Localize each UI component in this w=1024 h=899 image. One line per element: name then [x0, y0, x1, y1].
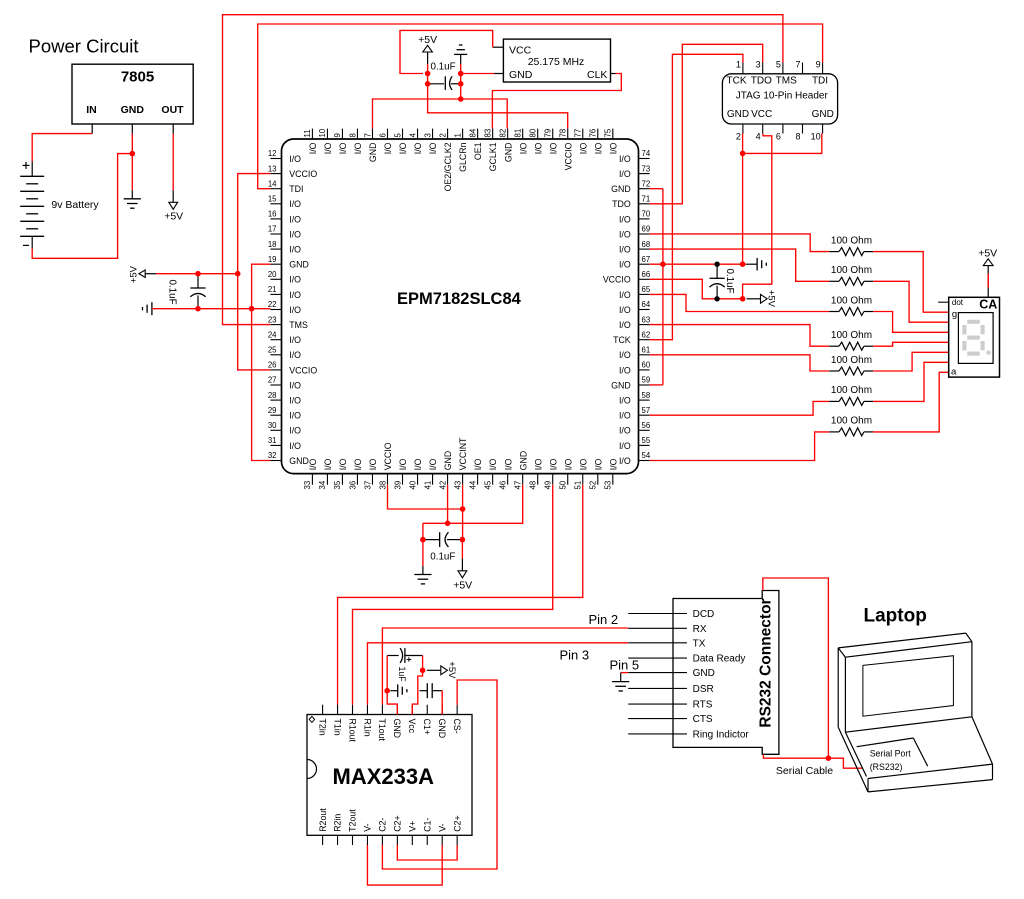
svg-text:41: 41 — [423, 481, 432, 490]
+5V symbol above display — [978, 247, 997, 297]
svg-text:I/O: I/O — [619, 214, 631, 224]
svg-text:CA: CA — [979, 298, 997, 312]
svg-text:I/O: I/O — [289, 396, 301, 406]
svg-text:I/O: I/O — [619, 411, 631, 421]
svg-text:I/O: I/O — [323, 458, 333, 470]
U2 top pin names — [308, 142, 618, 191]
resistor R5 100 Ohm — [829, 355, 873, 375]
svg-text:TCK: TCK — [613, 335, 631, 345]
svg-text:53: 53 — [604, 481, 613, 490]
svg-text:V+: V+ — [408, 821, 418, 832]
+5V symbol — [427, 661, 457, 679]
svg-text:TDO: TDO — [751, 75, 772, 86]
svg-text:3: 3 — [756, 60, 761, 70]
svg-text:4: 4 — [408, 133, 417, 138]
wire display anode +5V (red overlay) — [987, 274, 989, 288]
wire C7 to U4 GND pin — [441, 691, 443, 715]
RS232 connector J2 body — [628, 591, 779, 755]
svg-text:I/O: I/O — [488, 458, 498, 470]
svg-text:25.175 MHz: 25.175 MHz — [528, 56, 585, 68]
svg-text:C2+: C2+ — [452, 815, 462, 831]
svg-text:I/O: I/O — [338, 458, 348, 470]
U2 left pin numbers — [268, 149, 277, 460]
wire 7805 IN to battery + — [32, 134, 92, 162]
wire pin67 GND rail — [650, 263, 747, 265]
svg-text:77: 77 — [574, 129, 583, 138]
svg-text:1uF: 1uF — [397, 667, 407, 683]
svg-text:21: 21 — [268, 285, 277, 294]
wire JTAG TDI to U2 pin 14 — [258, 24, 823, 189]
svg-text:58: 58 — [642, 391, 651, 400]
svg-text:I/O: I/O — [619, 305, 631, 315]
svg-text:I/O: I/O — [619, 396, 631, 406]
svg-text:48: 48 — [529, 481, 538, 490]
svg-text:7: 7 — [795, 60, 800, 70]
ground above U3 (inverted) — [454, 45, 467, 64]
svg-text:I/O: I/O — [608, 458, 618, 470]
svg-text:69: 69 — [642, 225, 651, 234]
wire U2 pin51 to U4 T1in — [338, 485, 583, 705]
svg-text:34: 34 — [318, 480, 327, 489]
svg-text:22: 22 — [268, 300, 277, 309]
svg-text:+5V: +5V — [978, 247, 997, 259]
capacitor C1 0.1uF body — [190, 274, 205, 309]
svg-text:T2in: T2in — [317, 719, 327, 736]
svg-text:0.1uF: 0.1uF — [430, 552, 455, 563]
svg-text:GND: GND — [289, 260, 309, 270]
wire C6 left to U4 GND — [387, 656, 397, 715]
svg-text:100 Ohm: 100 Ohm — [831, 265, 872, 276]
labels Pin 2 / Pin 3 / Pin 5 — [560, 612, 640, 673]
svg-text:I/O: I/O — [619, 290, 631, 300]
wire C5 right to +5V — [461, 540, 463, 559]
svg-text:7: 7 — [363, 133, 372, 137]
svg-text:56: 56 — [642, 421, 651, 430]
wire battery - to 7805 GND node — [32, 154, 132, 259]
U2 left pin names — [289, 154, 317, 466]
svg-text:I/O: I/O — [619, 456, 631, 466]
svg-text:80: 80 — [529, 128, 538, 137]
svg-text:44: 44 — [468, 480, 477, 489]
svg-text:52: 52 — [589, 481, 598, 490]
svg-text:GND: GND — [392, 719, 402, 739]
svg-text:16: 16 — [268, 210, 277, 219]
ground for 7805 — [124, 190, 141, 208]
wire R6 to display pin7 — [873, 362, 949, 401]
svg-text:+5V: +5V — [129, 265, 140, 283]
wire U4 R1in to RS232 TX (Pin 3) — [367, 643, 628, 705]
svg-text:+5V: +5V — [164, 211, 183, 223]
svg-text:10: 10 — [811, 132, 821, 142]
wire R5 to display pin6 — [873, 352, 949, 371]
svg-text:39: 39 — [393, 481, 402, 490]
svg-text:Vcc: Vcc — [407, 719, 417, 734]
svg-text:+5V: +5V — [453, 580, 472, 592]
junction dots U4 caps — [384, 668, 425, 694]
svg-text:84: 84 — [468, 128, 477, 137]
svg-text:I/O: I/O — [398, 142, 408, 154]
svg-text:I/O: I/O — [413, 142, 423, 154]
svg-text:I/O: I/O — [353, 142, 363, 154]
wire R2 to display pin3 — [873, 281, 949, 322]
svg-text:2: 2 — [438, 133, 447, 137]
svg-text:Pin 5: Pin 5 — [610, 658, 640, 673]
svg-text:83: 83 — [483, 129, 492, 138]
+5V symbol under 7805 OUT — [164, 190, 183, 222]
svg-text:60: 60 — [642, 361, 651, 370]
ground at Pin 5 — [612, 673, 629, 691]
wire JTAG pin2 GND to pin10 and down — [742, 134, 744, 265]
svg-text:18: 18 — [268, 240, 277, 249]
svg-text:8: 8 — [795, 132, 800, 142]
oscillator U3 25.175 MHz — [493, 39, 616, 82]
wire JTAG TMS to U2 pin 23 — [223, 15, 783, 325]
svg-text:64: 64 — [642, 300, 651, 309]
JTAG 10-Pin Header J1 — [722, 60, 837, 142]
svg-text:C2+: C2+ — [393, 815, 403, 831]
svg-text:R2in: R2in — [333, 814, 343, 832]
svg-text:I/O: I/O — [619, 154, 631, 164]
svg-text:GND: GND — [437, 719, 447, 739]
svg-text:7805: 7805 — [121, 69, 154, 86]
U2 right pin numbers — [642, 149, 651, 460]
svg-text:40: 40 — [408, 480, 417, 489]
+5V symbol feeding VCCIO rail — [129, 265, 156, 283]
svg-text:Serial Cable: Serial Cable — [776, 765, 833, 777]
svg-text:C1+: C1+ — [422, 719, 432, 735]
junction dots C5 area — [420, 506, 465, 542]
svg-text:67: 67 — [642, 255, 651, 264]
svg-text:10: 10 — [318, 128, 327, 137]
wire U2 pin57 to R6 — [650, 401, 830, 415]
svg-text:Power Circuit: Power Circuit — [29, 36, 139, 57]
svg-text:VCCIO: VCCIO — [603, 275, 631, 285]
wire +5V arrow to junction — [427, 64, 429, 73]
svg-text:75: 75 — [604, 128, 613, 137]
junction dots C1 rails — [195, 271, 254, 312]
svg-text:66: 66 — [642, 270, 651, 279]
svg-text:R1out: R1out — [347, 719, 357, 743]
svg-text:8: 8 — [348, 133, 357, 137]
svg-text:GND: GND — [509, 69, 533, 81]
svg-text:V-: V- — [437, 823, 447, 831]
wire U3 ground chain vertical — [460, 64, 462, 99]
svg-text:I/O: I/O — [289, 335, 301, 345]
svg-text:GND: GND — [368, 143, 378, 163]
wire R3 to display pin4 — [873, 312, 949, 333]
svg-text:I/O: I/O — [593, 142, 603, 154]
wire U4 CS- to C2- — [382, 680, 497, 869]
svg-text:59: 59 — [642, 376, 651, 385]
+5V symbol — [747, 290, 777, 308]
svg-text:61: 61 — [642, 346, 651, 355]
U2 left pin leads — [270, 159, 281, 461]
capacitor C3 0.1uF (oscillator) — [428, 61, 461, 90]
svg-text:R1in: R1in — [362, 719, 372, 737]
svg-text:51: 51 — [574, 481, 583, 490]
svg-text:I/O: I/O — [533, 142, 543, 154]
U2 right pin names — [603, 154, 631, 466]
wire +5V loop to U3 VCC — [400, 30, 493, 73]
svg-text:19: 19 — [268, 255, 277, 264]
svg-text:GND: GND — [121, 104, 145, 116]
resistor R4 100 Ohm — [829, 330, 873, 350]
ground below C5 — [414, 566, 431, 584]
svg-text:I/O: I/O — [308, 142, 318, 154]
svg-text:VCC: VCC — [751, 109, 772, 120]
svg-text:13: 13 — [268, 164, 277, 173]
svg-text:30: 30 — [268, 421, 277, 430]
+5V symbol above C3 — [418, 34, 437, 64]
svg-text:I/O: I/O — [548, 142, 558, 154]
wire JTAG TDO to U2 pin 71 — [650, 44, 763, 204]
wire Pin5 ground to RS232 GND — [621, 672, 629, 674]
wire U2 pin54 to R7 — [650, 432, 830, 461]
wire 7805 OUT to +5V — [172, 134, 174, 191]
svg-text:I/O: I/O — [289, 441, 301, 451]
svg-text:42: 42 — [438, 481, 447, 490]
svg-text:I/O: I/O — [563, 458, 573, 470]
svg-text:I/O: I/O — [619, 426, 631, 436]
svg-text:9: 9 — [816, 60, 821, 70]
svg-text:81: 81 — [513, 129, 522, 138]
U2 bottom pin names — [308, 437, 618, 470]
svg-text:I/O: I/O — [289, 380, 301, 390]
wire +5V rail to pin13/26 vertical — [156, 273, 238, 275]
svg-text:RTS: RTS — [693, 700, 713, 711]
svg-text:TDI: TDI — [812, 75, 828, 86]
wire U2 pin65 to R3 — [650, 294, 830, 311]
ground (sideways left) — [143, 302, 152, 315]
svg-text:C1-: C1- — [422, 818, 432, 832]
svg-text:100 Ohm: 100 Ohm — [831, 385, 872, 396]
svg-text:I/O: I/O — [548, 458, 558, 470]
svg-text:GLCRn: GLCRn — [458, 142, 468, 171]
svg-text:74: 74 — [642, 149, 651, 158]
capacitor C5 0.1uF body — [423, 532, 463, 547]
svg-text:CS-: CS- — [452, 719, 462, 734]
svg-text:38: 38 — [378, 481, 387, 490]
svg-text:24: 24 — [268, 330, 277, 339]
wire pin66 VCCIO to +5V rail — [650, 279, 743, 299]
svg-text:9v Battery: 9v Battery — [51, 199, 99, 211]
svg-text:1: 1 — [453, 133, 462, 137]
wire U4 T1out to RS232 RX (Pin 2) — [382, 628, 628, 705]
svg-text:OE2/GCLK2: OE2/GCLK2 — [443, 142, 453, 191]
U2 bottom pin numbers — [303, 480, 612, 489]
battery BT1 9v — [20, 162, 99, 249]
wire GND net pin19 - pin32 — [252, 264, 271, 460]
svg-text:50: 50 — [559, 480, 568, 489]
svg-text:62: 62 — [642, 330, 651, 339]
svg-text:Laptop: Laptop — [864, 606, 927, 627]
svg-text:I/O: I/O — [398, 458, 408, 470]
svg-text:I/O: I/O — [368, 458, 378, 470]
svg-text:100 Ohm: 100 Ohm — [831, 295, 872, 306]
svg-text:GND: GND — [812, 109, 834, 120]
svg-text:35: 35 — [333, 480, 342, 489]
wire U3 GND stub — [461, 73, 494, 75]
wire RS232 shell loop — [763, 578, 829, 758]
wire JTAG TCK to U2 pin 62 — [650, 54, 743, 339]
wire JTAG pin4 VCC to +5V node — [743, 134, 772, 299]
CPLD U2 EPM7182SLC84 body — [282, 139, 639, 474]
svg-text:VCCIO: VCCIO — [383, 442, 393, 470]
wire U2 pin69 to R1 — [650, 234, 830, 252]
svg-text:26: 26 — [268, 361, 277, 370]
wire VCCIO net pin13 - pin26 — [238, 174, 271, 370]
wire pin38 VCCIO to VCCINT node — [388, 485, 463, 509]
resistor R1 100 Ohm — [829, 235, 873, 255]
voltage regulator U1 7805 — [72, 64, 193, 133]
RS232 transceiver U4 MAX233A body — [307, 705, 472, 845]
svg-text:VCCIO: VCCIO — [289, 365, 317, 375]
svg-text:VCC: VCC — [509, 45, 532, 57]
svg-text:VCCIO: VCCIO — [563, 142, 573, 170]
svg-text:3: 3 — [423, 133, 432, 137]
svg-text:EPM7182SLC84: EPM7182SLC84 — [397, 290, 522, 308]
svg-text:6: 6 — [378, 133, 387, 137]
svg-text:2: 2 — [736, 132, 741, 142]
svg-text:46: 46 — [498, 481, 507, 490]
svg-text:73: 73 — [642, 164, 651, 173]
svg-text:65: 65 — [642, 285, 651, 294]
svg-text:82: 82 — [498, 129, 507, 138]
svg-text:IN: IN — [86, 104, 97, 116]
svg-text:68: 68 — [642, 240, 651, 249]
svg-text:VCCIO: VCCIO — [289, 169, 317, 179]
svg-text:43: 43 — [453, 481, 462, 490]
svg-text:I/O: I/O — [619, 365, 631, 375]
svg-text:C2-: C2- — [378, 818, 388, 832]
svg-text:T2out: T2out — [348, 809, 358, 832]
svg-text:(RS232): (RS232) — [870, 762, 903, 772]
U2 top pin numbers — [303, 128, 612, 137]
ground right of C6 — [398, 684, 407, 697]
resistor R7 100 Ohm — [829, 416, 873, 436]
wire 7805 GND down — [131, 134, 133, 191]
svg-text:T1out: T1out — [377, 719, 387, 742]
svg-text:RX: RX — [693, 624, 707, 635]
svg-text:I/O: I/O — [518, 142, 528, 154]
svg-text:23: 23 — [268, 315, 277, 324]
7-segment digit segments — [964, 322, 982, 354]
svg-text:54: 54 — [642, 451, 651, 460]
svg-text:I/O: I/O — [308, 458, 318, 470]
svg-text:+5V: +5V — [766, 290, 777, 308]
wire U2 pin68 to R2 — [650, 249, 830, 281]
svg-text:100 Ohm: 100 Ohm — [831, 355, 872, 366]
svg-text:I/O: I/O — [619, 441, 631, 451]
svg-text:RS232 Connector: RS232 Connector — [757, 598, 774, 727]
svg-text:MAX233A: MAX233A — [333, 764, 435, 789]
junction dots oscillator — [425, 71, 464, 102]
svg-text:I/O: I/O — [289, 229, 301, 239]
svg-text:I/O: I/O — [323, 142, 333, 154]
svg-text:I/O: I/O — [533, 458, 543, 470]
wire R7 to display a — [873, 372, 949, 432]
svg-text:I/O: I/O — [473, 458, 483, 470]
wire C6 ground stub — [390, 690, 397, 692]
wire +5V node down to pin 78 VCCIO — [428, 74, 568, 129]
svg-text:12: 12 — [268, 149, 277, 158]
wire +5V node to U4 Vcc — [412, 670, 422, 714]
svg-text:17: 17 — [268, 225, 277, 234]
svg-text:g: g — [952, 309, 957, 320]
svg-text:Ring Indictor: Ring Indictor — [693, 730, 750, 741]
wire GND net pin72-pin59 — [650, 188, 663, 190]
svg-text:Pin 3: Pin 3 — [560, 648, 590, 663]
svg-text:0.1uF: 0.1uF — [724, 269, 735, 294]
svg-text:I/O: I/O — [289, 275, 301, 285]
svg-text:GND: GND — [503, 143, 513, 163]
svg-text:55: 55 — [642, 436, 651, 445]
junction dots C4 rails — [660, 261, 745, 301]
svg-text:27: 27 — [268, 376, 277, 385]
svg-text:I/O: I/O — [289, 426, 301, 436]
svg-text:Pin 2: Pin 2 — [589, 612, 619, 627]
svg-text:I/O: I/O — [428, 458, 438, 470]
svg-text:14: 14 — [268, 179, 277, 188]
svg-text:DSR: DSR — [693, 684, 714, 695]
svg-text:TMS: TMS — [289, 320, 308, 330]
svg-text:78: 78 — [559, 129, 568, 138]
svg-text:45: 45 — [483, 480, 492, 489]
Serial Port label — [870, 748, 912, 772]
svg-text:I/O: I/O — [289, 199, 301, 209]
svg-text:29: 29 — [268, 406, 277, 415]
svg-text:I/O: I/O — [608, 142, 618, 154]
svg-text:CLK: CLK — [587, 69, 607, 81]
svg-text:OE1: OE1 — [473, 142, 483, 160]
svg-text:15: 15 — [268, 195, 277, 204]
svg-text:GND: GND — [693, 668, 715, 679]
svg-text:Serial Port: Serial Port — [870, 748, 912, 758]
wire U4 V- to V- — [367, 845, 442, 885]
svg-text:5: 5 — [393, 133, 402, 138]
svg-text:79: 79 — [544, 129, 553, 138]
svg-text:57: 57 — [642, 406, 651, 415]
svg-text:T1in: T1in — [332, 719, 342, 736]
svg-text:GCLK1: GCLK1 — [488, 142, 498, 171]
svg-text:I/O: I/O — [338, 142, 348, 154]
ground right of C4 — [757, 258, 766, 271]
svg-text:4: 4 — [756, 132, 761, 142]
svg-text:I/O: I/O — [289, 350, 301, 360]
svg-text:0.1uF: 0.1uF — [431, 61, 456, 72]
capacitor C6 1uF — [387, 648, 422, 682]
svg-text:TDO: TDO — [612, 199, 631, 209]
U2 top pin leads — [312, 129, 612, 139]
svg-text:11: 11 — [303, 129, 312, 137]
junction power GND — [130, 151, 136, 157]
svg-text:9: 9 — [333, 133, 342, 137]
svg-text:25: 25 — [268, 346, 277, 355]
7-segment display DS1 (CA) — [938, 297, 999, 377]
svg-text:47: 47 — [513, 481, 522, 490]
svg-text:I/O: I/O — [289, 305, 301, 315]
resistor R6 100 Ohm — [829, 385, 873, 405]
svg-text:GND: GND — [518, 451, 528, 471]
svg-text:CTS: CTS — [693, 714, 713, 725]
svg-text:1: 1 — [736, 60, 741, 70]
svg-text:JTAG 10-Pin Header: JTAG 10-Pin Header — [736, 90, 829, 101]
wire C6 right to +5V node — [422, 656, 424, 671]
svg-text:I/O: I/O — [289, 245, 301, 255]
svg-text:GND: GND — [443, 451, 453, 471]
svg-text:I/O: I/O — [619, 245, 631, 255]
svg-text:0.1uF: 0.1uF — [166, 280, 177, 305]
